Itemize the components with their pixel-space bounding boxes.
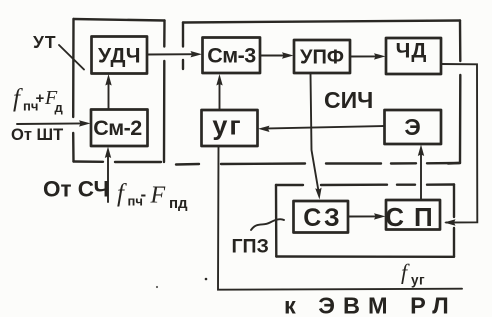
svg-text:От СЧ: От СЧ: [43, 177, 109, 202]
svg-text:СИЧ: СИЧ: [324, 87, 373, 113]
svg-text:См-3: См-3: [207, 44, 256, 68]
wire УГ output fуг to ЭВМ РЛ: [218, 146, 462, 290]
svg-text:ЧД: ЧД: [396, 40, 428, 63]
svg-text:уг: уг: [411, 273, 425, 288]
block ЧД: [386, 38, 441, 74]
svg-text:f: f: [401, 260, 410, 285]
block См-3: [203, 38, 261, 74]
wire УПФ to СЗ: [311, 74, 322, 200]
wire УПФ to ЧД: [350, 53, 386, 59]
block СЗ: [294, 201, 349, 233]
wire СП to Э: [418, 145, 424, 201]
container box СИЧ (frequency tracking loop): [176, 21, 460, 165]
wire См-3 to УПФ: [260, 52, 294, 58]
svg-text:уг: уг: [212, 111, 242, 141]
svg-text:УТ: УТ: [33, 32, 57, 52]
svg-text:f: f: [13, 85, 23, 112]
wire См-2 to УДЧ: [105, 74, 111, 109]
svg-text:Э: Э: [404, 114, 420, 140]
label СИЧ: [324, 87, 373, 113]
node dot artifact: [205, 278, 208, 281]
svg-text:д: д: [55, 100, 64, 115]
svg-text:+: +: [36, 90, 45, 107]
svg-text:F: F: [150, 183, 166, 209]
svg-text:ГПЗ: ГПЗ: [232, 236, 269, 258]
wire СЗ to СП: [348, 213, 386, 219]
wire input fпч+Fд into См-2: [17, 120, 91, 126]
label fуг: [401, 260, 425, 288]
container box ГПЗ (range tracking group): [276, 185, 454, 257]
label От ШТ: [11, 126, 63, 144]
wire ЧД feedback to СП (right side loop): [441, 64, 477, 226]
svg-text:пд: пд: [169, 195, 188, 212]
container box УТ (tuning amplifier group): [73, 19, 164, 162]
label От СЧ: [43, 177, 109, 202]
svg-text:-: -: [141, 185, 147, 204]
block УПФ: [294, 40, 350, 73]
svg-text:От ШТ: От ШТ: [11, 126, 63, 144]
label к ЭВМ РЛ: [284, 293, 457, 317]
svg-text:УДЧ: УДЧ: [98, 45, 141, 68]
svg-text:к ЭВМ РЛ: к ЭВМ РЛ: [284, 293, 457, 317]
block УДЧ: [92, 37, 148, 74]
ink speck: [156, 286, 158, 288]
block См-2: [91, 110, 148, 147]
label fпч-Fпд: [117, 180, 188, 212]
label ГПЗ with curved pointer: [232, 219, 285, 257]
block Э: [385, 110, 442, 144]
label fпч+Fд: [13, 85, 64, 115]
wire Э to УГ: [258, 126, 385, 132]
block СП: [385, 200, 442, 232]
svg-text:УПФ: УПФ: [300, 47, 344, 69]
label УТ with pointer line: [33, 32, 84, 70]
block УГ: [202, 110, 258, 146]
wire УГ to См-3: [216, 74, 222, 110]
svg-text:СЗ: СЗ: [303, 204, 342, 232]
wire УДЧ to См-3: [148, 51, 203, 57]
wire От СЧ input into См-2 bottom: [105, 147, 111, 203]
svg-text:СП: СП: [385, 202, 442, 232]
svg-text:f: f: [117, 180, 127, 207]
svg-text:См-2: См-2: [93, 116, 142, 140]
